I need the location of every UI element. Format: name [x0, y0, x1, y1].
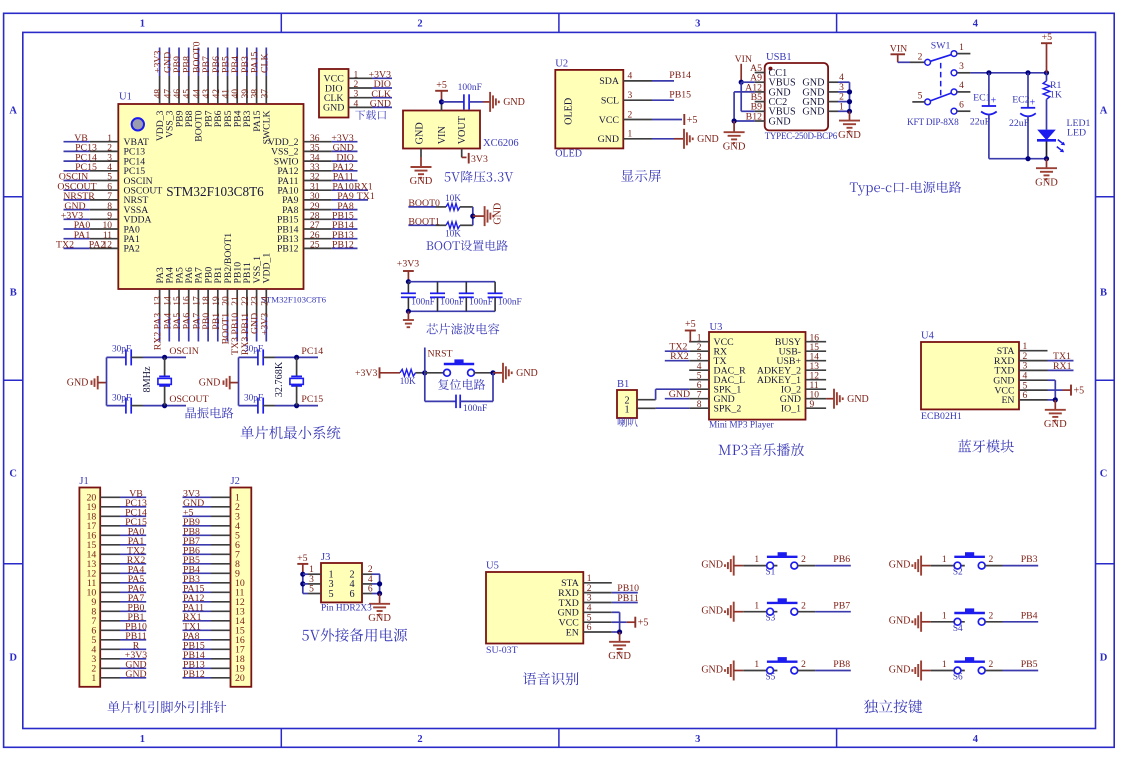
svg-text:PC15: PC15: [301, 394, 323, 405]
svg-text:2: 2: [628, 110, 633, 120]
svg-text:3: 3: [309, 575, 314, 585]
svg-text:2: 2: [368, 565, 373, 575]
svg-text:20: 20: [222, 296, 232, 306]
svg-text:24: 24: [260, 296, 270, 306]
svg-text:13: 13: [810, 362, 820, 372]
svg-text:+3V3: +3V3: [259, 313, 270, 335]
svg-text:OLED: OLED: [555, 149, 582, 160]
svg-text:47: 47: [163, 89, 173, 99]
svg-text:2: 2: [107, 144, 112, 154]
svg-text:39: 39: [241, 89, 251, 99]
svg-text:PB12: PB12: [277, 244, 299, 255]
svg-text:GND: GND: [368, 613, 391, 624]
svg-text:SWCLK: SWCLK: [262, 110, 273, 144]
svg-text:30pF: 30pF: [244, 393, 263, 403]
svg-text:12: 12: [810, 372, 820, 382]
svg-text:5: 5: [697, 372, 702, 382]
svg-text:GND: GND: [415, 122, 426, 144]
svg-text:NRST: NRST: [428, 349, 453, 360]
svg-text:1: 1: [107, 134, 112, 144]
svg-text:13: 13: [154, 296, 164, 306]
svg-text:1: 1: [959, 43, 964, 53]
svg-text:U4: U4: [921, 331, 935, 342]
svg-text:PB12: PB12: [183, 669, 205, 680]
svg-text:26: 26: [310, 231, 320, 241]
svg-text:4: 4: [959, 81, 964, 91]
svg-text:GND: GND: [1035, 177, 1058, 188]
svg-text:6: 6: [959, 101, 964, 111]
svg-text:30pF: 30pF: [112, 393, 131, 403]
svg-text:32: 32: [310, 173, 320, 183]
svg-text:S3: S3: [766, 614, 776, 624]
svg-text:TYPEC-250D-BCP6: TYPEC-250D-BCP6: [765, 131, 838, 141]
svg-text:6: 6: [368, 585, 373, 595]
svg-text:6: 6: [697, 381, 702, 391]
svg-text:11: 11: [810, 381, 819, 391]
svg-text:100nF: 100nF: [469, 298, 493, 308]
svg-text:+5: +5: [297, 553, 308, 564]
svg-text:10K: 10K: [445, 229, 461, 239]
svg-text:OSCIN: OSCIN: [169, 346, 198, 357]
svg-text:46: 46: [173, 89, 183, 99]
svg-text:4: 4: [354, 99, 359, 109]
svg-text:+5: +5: [436, 80, 447, 91]
svg-text:6: 6: [349, 589, 354, 600]
svg-text:XC6206: XC6206: [483, 138, 519, 149]
svg-text:PB15: PB15: [669, 89, 691, 100]
svg-text:10K: 10K: [445, 193, 461, 203]
svg-text:PB8: PB8: [833, 659, 850, 670]
svg-text:9: 9: [810, 400, 815, 410]
svg-text:6: 6: [107, 182, 112, 192]
svg-text:STM32F103C8T6: STM32F103C8T6: [261, 295, 327, 305]
svg-text:1: 1: [697, 334, 702, 344]
svg-text:ECB02H1: ECB02H1: [921, 411, 962, 422]
svg-text:40: 40: [231, 89, 241, 99]
svg-text:PB11: PB11: [617, 593, 639, 604]
svg-text:37: 37: [260, 89, 270, 99]
svg-text:1: 1: [624, 405, 629, 416]
svg-text:STM32F103C8T6: STM32F103C8T6: [166, 184, 264, 199]
svg-text:GND: GND: [1044, 419, 1067, 430]
svg-text:30pF: 30pF: [244, 345, 263, 355]
svg-text:4: 4: [973, 19, 979, 30]
svg-text:3: 3: [959, 62, 964, 72]
svg-text:KFT DIP-8X8: KFT DIP-8X8: [907, 118, 959, 128]
svg-text:5: 5: [107, 173, 112, 183]
svg-text:SU-03T: SU-03T: [486, 645, 518, 656]
svg-text:48: 48: [154, 89, 164, 99]
svg-text:GND: GND: [598, 134, 619, 145]
svg-text:S4: S4: [953, 624, 963, 634]
svg-text:Pin HDR2X3: Pin HDR2X3: [321, 604, 372, 614]
svg-text:B: B: [10, 288, 17, 299]
svg-text:1: 1: [91, 673, 96, 684]
svg-text:D: D: [1100, 653, 1108, 664]
svg-text:1: 1: [839, 102, 844, 112]
svg-text:2: 2: [918, 52, 923, 62]
svg-text:3: 3: [839, 83, 844, 93]
svg-text:PB4: PB4: [1021, 610, 1038, 621]
svg-text:4: 4: [107, 163, 112, 173]
svg-text:GND: GND: [67, 377, 89, 388]
svg-text:3: 3: [695, 19, 700, 30]
svg-text:7: 7: [697, 391, 702, 401]
svg-text:22uF: 22uF: [970, 116, 991, 127]
svg-text:RX1: RX1: [1053, 361, 1072, 372]
svg-text:4: 4: [697, 362, 702, 372]
svg-text:15: 15: [810, 343, 820, 353]
svg-text:5: 5: [309, 585, 314, 595]
svg-text:3: 3: [107, 153, 112, 163]
svg-text:SDA: SDA: [599, 76, 620, 87]
svg-text:33: 33: [310, 163, 320, 173]
svg-text:SCL: SCL: [601, 96, 619, 107]
svg-text:21: 21: [231, 296, 241, 306]
svg-text:J2: J2: [231, 476, 240, 487]
svg-text:9: 9: [107, 212, 112, 222]
svg-text:4: 4: [839, 73, 844, 83]
svg-text:10: 10: [103, 221, 113, 231]
svg-text:+5: +5: [1042, 32, 1053, 43]
svg-text:VIN: VIN: [735, 54, 752, 65]
svg-text:7: 7: [107, 192, 112, 202]
svg-text:EN: EN: [566, 627, 579, 638]
svg-text:36: 36: [310, 134, 320, 144]
svg-text:VIN: VIN: [890, 44, 907, 55]
svg-text:100nF: 100nF: [440, 298, 464, 308]
svg-text:PA2: PA2: [89, 240, 106, 251]
svg-text:25: 25: [310, 241, 320, 251]
svg-text:10: 10: [810, 391, 820, 401]
svg-text:GND: GND: [723, 141, 746, 152]
svg-text:3: 3: [354, 90, 359, 100]
svg-text:10K: 10K: [400, 376, 416, 386]
svg-text:VIN: VIN: [437, 126, 448, 145]
svg-text:42: 42: [212, 89, 222, 99]
svg-text:2: 2: [839, 93, 844, 103]
svg-text:TX2: TX2: [56, 240, 74, 251]
svg-text:Mini MP3 Player: Mini MP3 Player: [709, 421, 774, 431]
svg-text:31: 31: [310, 182, 320, 192]
svg-text:VDD_1: VDD_1: [262, 253, 273, 284]
svg-text:GND: GND: [769, 116, 791, 127]
svg-text:16: 16: [810, 334, 820, 344]
svg-text:22: 22: [241, 296, 251, 306]
svg-text:3: 3: [628, 91, 633, 101]
svg-text:1: 1: [754, 601, 759, 611]
svg-text:GND: GND: [410, 176, 433, 187]
svg-text:U5: U5: [486, 561, 499, 572]
svg-text:TX1: TX1: [357, 191, 375, 202]
svg-text:USB1: USB1: [766, 52, 792, 63]
svg-text:A: A: [1100, 106, 1108, 117]
svg-text:J3: J3: [321, 552, 330, 563]
svg-text:2: 2: [989, 555, 994, 565]
svg-text:GND: GND: [701, 606, 723, 617]
svg-text:100nF: 100nF: [463, 404, 487, 414]
svg-text:3V3: 3V3: [471, 154, 488, 165]
svg-text:30pF: 30pF: [112, 345, 131, 355]
svg-text:SW1: SW1: [931, 41, 951, 52]
svg-text:+5: +5: [638, 618, 649, 629]
svg-text:+: +: [991, 96, 997, 107]
svg-text:2: 2: [801, 555, 806, 565]
svg-text:2: 2: [801, 660, 806, 670]
svg-text:CLK: CLK: [259, 53, 270, 73]
svg-text:OLED: OLED: [564, 98, 575, 125]
svg-text:1: 1: [140, 19, 145, 30]
svg-text:GND: GND: [701, 664, 723, 675]
svg-text:GND: GND: [323, 103, 344, 114]
svg-text:GND: GND: [608, 651, 631, 662]
svg-text:23: 23: [251, 296, 261, 306]
svg-text:GND: GND: [838, 130, 861, 141]
svg-text:38: 38: [251, 89, 261, 99]
svg-text:OSCOUT: OSCOUT: [169, 394, 208, 405]
svg-text:100nF: 100nF: [458, 83, 482, 93]
svg-text:PB5: PB5: [1021, 659, 1038, 670]
svg-text:14: 14: [810, 353, 820, 363]
svg-text:30: 30: [310, 192, 320, 202]
svg-text:PC14: PC14: [301, 346, 323, 357]
svg-text:EN: EN: [1001, 395, 1014, 406]
svg-text:43: 43: [202, 89, 212, 99]
svg-text:4: 4: [368, 575, 373, 585]
svg-text:2: 2: [354, 80, 359, 90]
svg-text:+: +: [1030, 97, 1036, 108]
svg-text:PB12: PB12: [332, 240, 354, 251]
svg-text:S2: S2: [953, 568, 963, 578]
svg-text:+3V3: +3V3: [355, 368, 377, 379]
svg-text:1: 1: [628, 130, 633, 140]
svg-text:1: 1: [354, 70, 359, 80]
svg-text:27: 27: [310, 221, 320, 231]
svg-text:GND: GND: [802, 107, 824, 118]
svg-text:4: 4: [973, 734, 979, 745]
svg-text:PB6: PB6: [833, 554, 850, 565]
svg-text:2: 2: [801, 601, 806, 611]
svg-text:SPK_2: SPK_2: [714, 404, 742, 415]
svg-text:PB3: PB3: [1021, 554, 1038, 565]
svg-text:IO_1: IO_1: [781, 404, 801, 415]
svg-text:U1: U1: [119, 92, 132, 103]
svg-text:14: 14: [163, 296, 173, 306]
svg-text:C: C: [1100, 469, 1108, 480]
svg-text:GND: GND: [125, 669, 146, 680]
svg-text:5: 5: [328, 589, 333, 600]
svg-text:C: C: [9, 469, 17, 480]
svg-text:PB14: PB14: [669, 70, 691, 81]
svg-text:GND: GND: [492, 203, 503, 225]
svg-text:GND: GND: [889, 664, 911, 675]
svg-text:8: 8: [107, 202, 112, 212]
svg-text:28: 28: [310, 212, 320, 222]
svg-text:VOUT: VOUT: [457, 115, 468, 144]
svg-text:S6: S6: [953, 673, 963, 683]
svg-text:16: 16: [183, 296, 193, 306]
svg-text:2: 2: [989, 660, 994, 670]
svg-text:34: 34: [310, 153, 320, 163]
svg-text:2: 2: [417, 19, 422, 30]
svg-text:1K: 1K: [1050, 90, 1062, 101]
svg-text:GND: GND: [701, 559, 723, 570]
svg-text:100nF: 100nF: [498, 298, 522, 308]
svg-text:+5: +5: [1074, 386, 1085, 397]
svg-text:U2: U2: [555, 59, 568, 70]
svg-text:GND: GND: [370, 99, 391, 110]
svg-text:29: 29: [310, 202, 320, 212]
svg-text:41: 41: [222, 89, 232, 99]
svg-text:19: 19: [212, 296, 222, 306]
svg-text:GND: GND: [889, 616, 911, 627]
svg-text:2: 2: [417, 734, 422, 745]
svg-text:44: 44: [192, 89, 202, 99]
svg-text:EC1: EC1: [973, 93, 991, 104]
svg-text:18: 18: [202, 296, 212, 306]
svg-text:5: 5: [918, 92, 923, 102]
svg-text:4: 4: [628, 72, 633, 82]
svg-text:1: 1: [942, 555, 947, 565]
svg-text:100nF: 100nF: [411, 298, 435, 308]
svg-text:22uF: 22uF: [1009, 118, 1030, 129]
svg-text:GND: GND: [697, 134, 719, 145]
svg-text:B: B: [1100, 288, 1107, 299]
svg-text:GND: GND: [503, 97, 525, 108]
svg-text:U3: U3: [710, 322, 723, 333]
svg-text:S1: S1: [766, 568, 776, 578]
svg-text:GND: GND: [847, 394, 869, 405]
svg-text:+5: +5: [685, 319, 696, 330]
svg-text:B1: B1: [617, 379, 629, 390]
svg-text:+3V3: +3V3: [397, 259, 419, 270]
svg-text:1: 1: [140, 734, 145, 745]
svg-text:PB7: PB7: [833, 600, 850, 611]
svg-text:1: 1: [754, 660, 759, 670]
svg-text:PA2: PA2: [124, 244, 140, 255]
svg-text:20: 20: [235, 673, 245, 684]
svg-text:J1: J1: [79, 476, 88, 487]
svg-text:+5: +5: [687, 115, 698, 126]
svg-text:GND: GND: [516, 368, 538, 379]
svg-text:2: 2: [989, 611, 994, 621]
svg-text:EC2: EC2: [1012, 94, 1030, 105]
svg-text:8: 8: [697, 400, 702, 410]
svg-text:1: 1: [754, 555, 759, 565]
svg-text:VCC: VCC: [599, 115, 620, 126]
svg-text:17: 17: [192, 296, 202, 306]
svg-text:2: 2: [697, 343, 702, 353]
svg-text:1: 1: [942, 611, 947, 621]
svg-text:D: D: [9, 653, 17, 664]
svg-text:LED: LED: [1067, 128, 1086, 139]
svg-text:A: A: [9, 106, 17, 117]
svg-text:S5: S5: [766, 673, 776, 683]
svg-text:GND: GND: [889, 559, 911, 570]
svg-text:15: 15: [173, 296, 183, 306]
svg-text:45: 45: [183, 89, 193, 99]
svg-text:3: 3: [697, 353, 702, 363]
svg-text:32.768K: 32.768K: [274, 361, 285, 397]
svg-text:3: 3: [695, 734, 700, 745]
svg-text:GND: GND: [199, 377, 221, 388]
svg-text:35: 35: [310, 144, 320, 154]
svg-text:8MHz: 8MHz: [142, 366, 153, 393]
svg-text:1: 1: [309, 565, 314, 575]
svg-text:1: 1: [942, 660, 947, 670]
